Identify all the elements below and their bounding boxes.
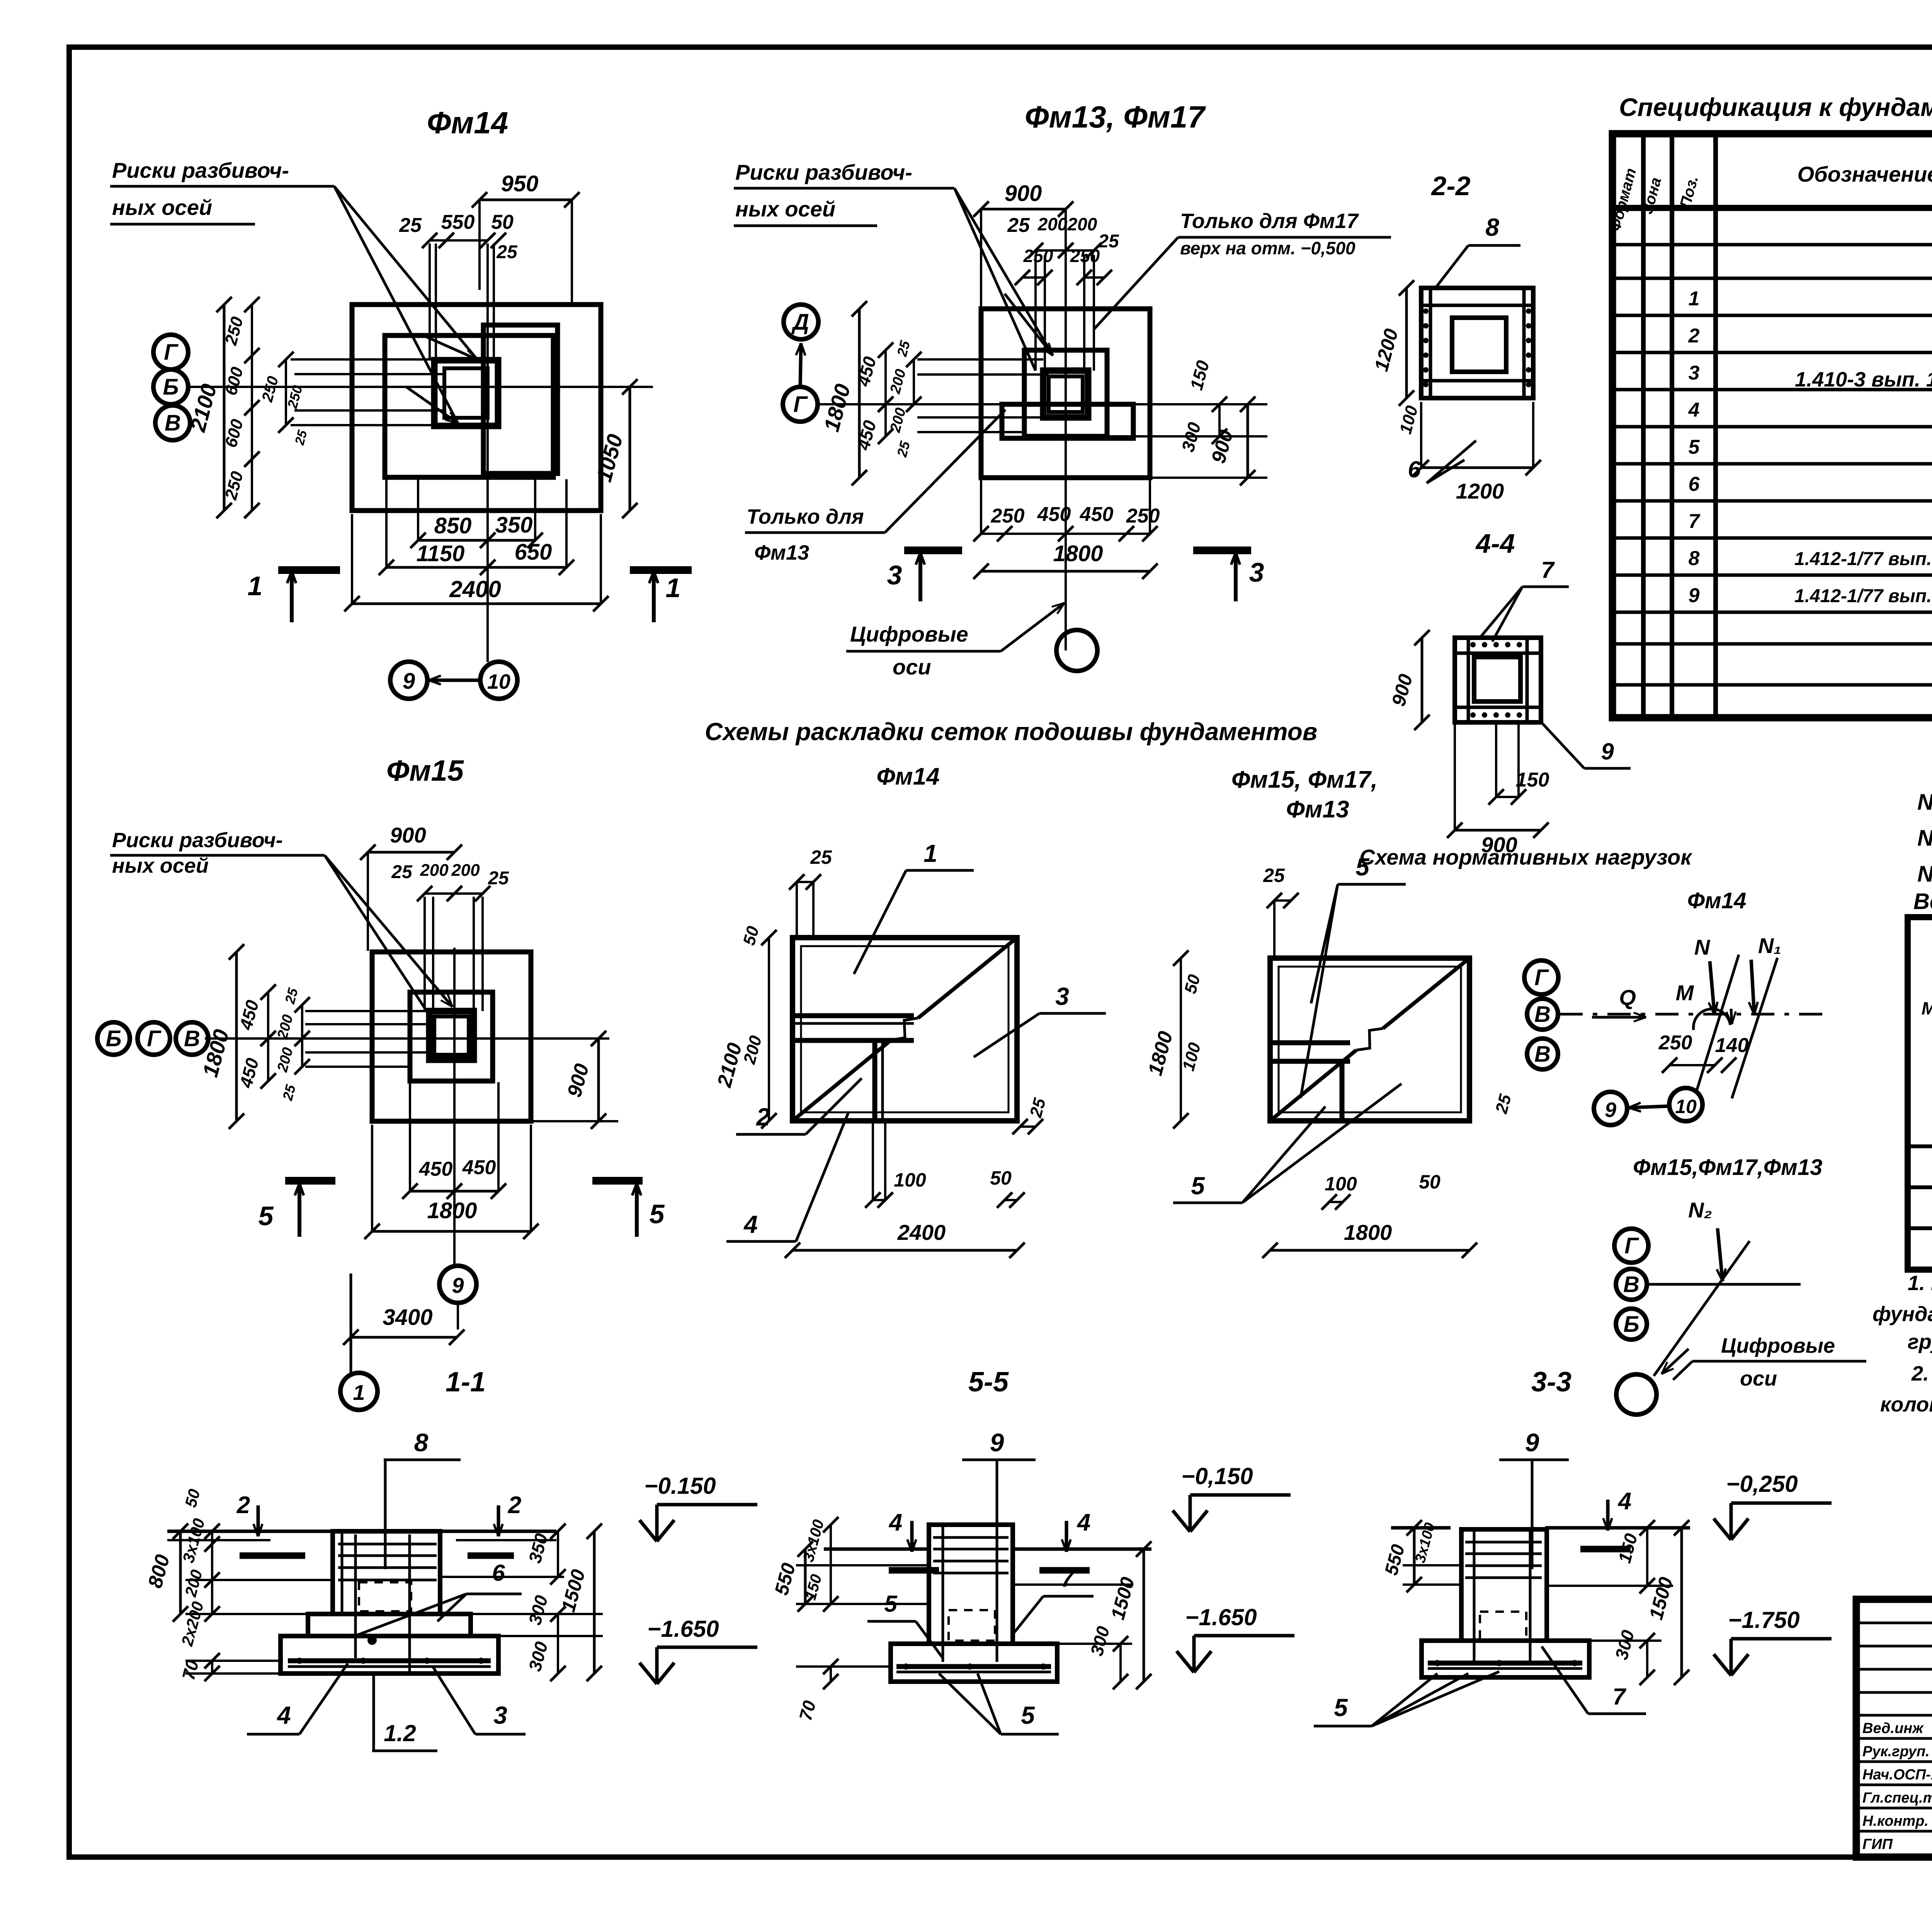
- svg-text:9: 9: [1605, 1098, 1616, 1122]
- svg-text:ных осей: ных осей: [112, 195, 212, 220]
- svg-text:N₂=358,0кН: N₂=358,0кН: [1917, 861, 1932, 887]
- svg-text:7: 7: [1541, 557, 1555, 583]
- axis circle Г (Фм13): [783, 387, 818, 422]
- section mark 1 left (Фм14): [278, 566, 340, 574]
- Фм13-only bottom extension rect: [1002, 404, 1133, 438]
- mesh Фм15 inner vertical bar: [1340, 1061, 1345, 1121]
- svg-text:1. Нагрузки на фундаменты: 1. Нагрузки на фундаменты даны по верхне…: [1908, 1272, 1932, 1295]
- svg-text:Только для Фм17: Только для Фм17: [1180, 209, 1359, 233]
- svg-text:200: 200: [451, 861, 480, 880]
- dim 1800 bottom (Фм13): [981, 570, 1150, 573]
- svg-text:Г: Г: [1534, 965, 1549, 990]
- svg-text:Спецификация к фундаментам: Спецификация к фундаментам Фм13– Фм17.: [1619, 93, 1932, 121]
- svg-text:9: 9: [403, 669, 415, 694]
- dim 1800 bottom line (mesh Фм15): [1270, 1249, 1469, 1252]
- svg-text:8: 8: [414, 1428, 429, 1457]
- svg-text:25: 25: [496, 242, 518, 262]
- svg-text:25: 25: [399, 214, 422, 237]
- svg-text:Д: Д: [791, 310, 809, 335]
- svg-text:4: 4: [888, 1509, 902, 1536]
- svg-text:250: 250: [1126, 505, 1160, 527]
- diagonal axis line (schema 2): [1654, 1241, 1750, 1376]
- axis circle 10 (Фм14): [480, 662, 517, 699]
- mesh Фм15 outer square: [1270, 958, 1469, 1121]
- svg-text:N₂: N₂: [1688, 1198, 1712, 1222]
- svg-text:−0,250: −0,250: [1726, 1471, 1798, 1497]
- svg-text:1800: 1800: [1053, 541, 1103, 566]
- ground line right (3-3): [1545, 1526, 1690, 1530]
- svg-text:N=282,5кН: N=282,5кН: [1917, 790, 1932, 815]
- horizontal centerline axis Г (Фм13): [818, 403, 1252, 405]
- axis circle 9 (Фм14): [390, 662, 427, 699]
- dim 900 top (Фм15): [368, 851, 454, 854]
- svg-text:грунта на его уступах.: грунта на его уступах.: [1908, 1330, 1932, 1353]
- pedestal (3-3): [1461, 1529, 1547, 1641]
- svg-text:1: 1: [923, 839, 937, 867]
- svg-text:Б: Б: [163, 375, 179, 400]
- section mark 2 right (1-1): [497, 1505, 500, 1536]
- svg-text:3-3: 3-3: [1531, 1367, 1571, 1398]
- svg-text:1: 1: [248, 571, 263, 601]
- leader lines (Фм13): [954, 188, 1053, 356]
- axis circle В (schema 2): [1616, 1269, 1647, 1300]
- dim 900 top (Фм13): [981, 208, 1066, 211]
- footing slab (3-3): [1422, 1641, 1589, 1677]
- dims 450 450 left (Фм13): [884, 350, 887, 404]
- svg-text:2-2: 2-2: [1430, 171, 1470, 201]
- footing slab (5-5): [891, 1644, 1057, 1682]
- svg-text:3: 3: [493, 1701, 507, 1729]
- svg-text:250: 250: [1658, 1032, 1692, 1054]
- svg-text:Фм15, Фм17,: Фм15, Фм17,: [1231, 766, 1378, 793]
- svg-text:3: 3: [1689, 362, 1700, 384]
- svg-text:5-5: 5-5: [968, 1367, 1009, 1398]
- svg-text:N₁: N₁: [1758, 933, 1781, 958]
- axis circle Д (Фм13): [784, 305, 818, 339]
- svg-text:10: 10: [487, 670, 510, 693]
- axis circle 9 below (Фм15): [439, 1266, 476, 1303]
- axis circle 10 (schema Фм14): [1669, 1088, 1702, 1121]
- axis circle 9 (schema Фм14): [1594, 1092, 1627, 1125]
- section 2-2 inner square: [1452, 318, 1506, 372]
- dims 550 3x100 150 left (3-3): [1413, 1528, 1416, 1585]
- svg-text:Рук.груп.: Рук.груп.: [1862, 1743, 1930, 1760]
- svg-text:10: 10: [1675, 1096, 1697, 1117]
- column section square (Фм14): [434, 360, 498, 426]
- svg-text:Вед.инж: Вед.инж: [1862, 1720, 1924, 1737]
- svg-text:1: 1: [1689, 288, 1700, 310]
- svg-text:9: 9: [1525, 1428, 1539, 1457]
- svg-text:450: 450: [1037, 503, 1071, 526]
- axis circle Б (schema 2): [1616, 1309, 1647, 1340]
- plan Фм14 pedestal rect: [483, 325, 558, 473]
- svg-text:2400: 2400: [897, 1220, 946, 1245]
- dim 2400 bottom (Фм14): [352, 603, 601, 605]
- svg-text:ГИП: ГИП: [1862, 1836, 1893, 1852]
- svg-text:Фм15,Фм17,Фм13: Фм15,Фм17,Фм13: [1633, 1155, 1822, 1180]
- svg-text:3: 3: [1249, 557, 1264, 587]
- svg-text:900: 900: [390, 823, 426, 847]
- steel table outer border: [1908, 917, 1932, 1270]
- dims 1500 300 right (5-5): [1143, 1549, 1145, 1682]
- svg-text:Б: Б: [1623, 1312, 1639, 1337]
- arrow 10 to 9 (schema Фм14): [1629, 1106, 1669, 1108]
- svg-text:−1.650: −1.650: [647, 1616, 719, 1642]
- svg-text:25: 25: [391, 862, 413, 882]
- section mark 1 right (Фм14): [630, 566, 692, 574]
- svg-text:Фм15: Фм15: [386, 754, 464, 787]
- axis projection lines into plan (Фм13): [917, 358, 1043, 361]
- column axis projection lines (Фм14): [429, 243, 431, 360]
- svg-text:2400: 2400: [449, 576, 501, 602]
- svg-text:4-4: 4-4: [1475, 528, 1515, 558]
- svg-text:4: 4: [1688, 399, 1700, 421]
- dim 900 left (4-4): [1421, 638, 1423, 722]
- step (1-1): [308, 1614, 333, 1636]
- ground line left (3-3): [1391, 1526, 1451, 1530]
- plan Фм13/17 step rect: [1024, 350, 1107, 436]
- svg-text:−1.750: −1.750: [1728, 1607, 1799, 1633]
- svg-text:Риски разбивоч-: Риски разбивоч-: [735, 160, 912, 184]
- svg-text:4: 4: [1617, 1488, 1631, 1515]
- horizontal centerline (Фм15): [205, 1037, 609, 1040]
- dim 2100 left (Фм14): [223, 305, 226, 511]
- svg-text:N₁=136,7кН: N₁=136,7кН: [1917, 826, 1932, 851]
- svg-text:В: В: [1534, 1042, 1551, 1067]
- section mark 5 right (Фм15): [592, 1177, 643, 1185]
- svg-text:Фм13, Фм17: Фм13, Фм17: [1025, 100, 1206, 134]
- ground line left (5-5): [824, 1548, 929, 1551]
- svg-text:В: В: [184, 1026, 200, 1051]
- svg-text:Схемы раскладки сеток подошв: Схемы раскладки сеток подошвы фундаменто…: [705, 718, 1317, 746]
- svg-text:450: 450: [462, 1156, 496, 1179]
- svg-text:Риски разбивоч-: Риски разбивоч-: [112, 829, 283, 852]
- section mark 3 right (Фм13): [1193, 546, 1251, 554]
- svg-text:2: 2: [1688, 325, 1700, 347]
- svg-text:50: 50: [491, 211, 514, 233]
- vertical centerline (Фм15): [453, 948, 456, 1266]
- plan Фм15 step rect: [410, 992, 493, 1081]
- svg-text:9: 9: [1689, 584, 1700, 607]
- signature table row lines: [1856, 1622, 1932, 1624]
- digital axis circle (Фм13): [1056, 630, 1097, 671]
- column projection lines (Фм15): [423, 897, 426, 1011]
- pedestal vertical rebar (3-3): [1473, 1531, 1476, 1662]
- svg-text:Цифровые: Цифровые: [850, 622, 968, 646]
- svg-text:25: 25: [1098, 231, 1119, 252]
- svg-text:Фм14: Фм14: [876, 763, 939, 790]
- leader lines (Фм15): [325, 855, 452, 1007]
- axis line (schema 2): [1648, 1283, 1801, 1286]
- mesh Фм14 inner horizontal bar 2: [793, 1038, 914, 1043]
- svg-text:В: В: [165, 410, 181, 436]
- svg-text:1.2: 1.2: [384, 1720, 416, 1746]
- column inner square (Фм15): [434, 1016, 469, 1055]
- svg-text:550: 550: [441, 211, 475, 233]
- ground line right (5-5): [1013, 1548, 1151, 1551]
- svg-text:1800: 1800: [1344, 1220, 1392, 1245]
- svg-text:Фм13: Фм13: [1286, 796, 1349, 823]
- dim 250/250/25 inner left (Фм14): [285, 359, 287, 425]
- svg-text:1150: 1150: [417, 541, 465, 566]
- svg-text:2: 2: [508, 1492, 521, 1519]
- svg-text:Н.контр.: Н.контр.: [1862, 1813, 1929, 1829]
- pedestal ties (1-1): [338, 1543, 437, 1546]
- section mark 2 left (1-1): [257, 1505, 260, 1536]
- leader lines to column marks (Фм14): [334, 186, 477, 359]
- dim 1200 bottom (2-2): [1421, 466, 1533, 469]
- axis circle Б (Фм14): [153, 369, 188, 404]
- plan Фм15 outer rect 1800x1800: [372, 952, 531, 1121]
- axis circle Г (Фм14): [153, 335, 188, 369]
- section mark 4 right (5-5): [1065, 1521, 1068, 1552]
- section mark 4 left (5-5): [910, 1521, 914, 1552]
- dims 150 1500 300 right (3-3): [1646, 1528, 1648, 1586]
- svg-text:150: 150: [1516, 769, 1549, 791]
- svg-text:200: 200: [1037, 214, 1068, 234]
- svg-text:8: 8: [1689, 547, 1700, 570]
- svg-text:Фм14: Фм14: [1687, 888, 1747, 913]
- slab center dot (1-1): [367, 1636, 377, 1645]
- svg-text:5: 5: [650, 1199, 665, 1229]
- section 4-4 outer square: [1455, 638, 1541, 722]
- svg-text:Б: Б: [105, 1026, 121, 1051]
- dim 900 right (Фм15): [597, 1039, 600, 1121]
- svg-text:100: 100: [1325, 1173, 1357, 1195]
- svg-text:250: 250: [1023, 246, 1053, 266]
- vertical centerline (Фм13): [1065, 209, 1067, 650]
- section mark 3 left (Фм13): [904, 546, 962, 554]
- arrow from 10 to 9 (Фм14): [429, 679, 480, 682]
- dashed anchor box (5-5): [949, 1610, 995, 1641]
- spec table row lines: [1612, 206, 1932, 210]
- axis circle В (Фм14): [155, 405, 190, 440]
- mesh Фм14 outer square: [793, 938, 1017, 1121]
- N2 arrow (schema 2): [1718, 1228, 1723, 1281]
- dim 1800 bottom (Фм15): [372, 1230, 531, 1233]
- projection lines to dims (3-3): [1403, 1583, 1461, 1586]
- projection lines to dims (1-1): [185, 1613, 308, 1615]
- column section square (Фм13): [1043, 371, 1088, 417]
- spec table outer border: [1612, 134, 1932, 718]
- svg-text:1200: 1200: [1456, 479, 1504, 503]
- dim 1200 left (2-2): [1405, 288, 1408, 398]
- dim 1150 650 (Фм14): [386, 566, 488, 569]
- svg-text:3400: 3400: [383, 1305, 432, 1330]
- dim 2400 bottom (mesh Фм14): [793, 1249, 1017, 1252]
- pedestal (1-1): [333, 1531, 440, 1614]
- dims 150 300 900 right (Фм13): [1218, 404, 1221, 436]
- leader from 8 into pedestal (1-1): [384, 1460, 387, 1569]
- axis circle В (Фм15): [176, 1022, 208, 1055]
- ground line left (1-1): [167, 1530, 333, 1533]
- vertical centerline (Фм14): [486, 271, 489, 662]
- svg-text:Только для: Только для: [747, 505, 864, 528]
- svg-text:25: 25: [1007, 214, 1030, 237]
- axis circle В (schema Фм14): [1527, 999, 1558, 1030]
- mesh Фм14 inner vertical bar: [872, 1040, 878, 1121]
- svg-text:200: 200: [1067, 214, 1097, 234]
- mesh Фм15 inner horizontal bar 2: [1270, 1059, 1350, 1064]
- column inner square (Фм14): [444, 368, 488, 418]
- dim 250/600/600/250 left (Фм14): [251, 305, 253, 511]
- dim 850 350 (Фм14): [418, 539, 488, 542]
- svg-text:5: 5: [1334, 1694, 1348, 1721]
- dims 200 200 25 inner (Фм13): [913, 359, 915, 404]
- plan Фм14 step rect: [385, 335, 553, 477]
- column section square (Фм15): [429, 1011, 474, 1060]
- svg-text:В: В: [1623, 1272, 1639, 1297]
- svg-text:2: 2: [236, 1492, 250, 1519]
- column inner square (Фм13): [1049, 376, 1083, 412]
- pedestal vertical rebar (5-5): [942, 1527, 944, 1662]
- steel table data rows: [1908, 1144, 1932, 1148]
- dim 950 top (Фм14): [480, 199, 572, 201]
- svg-text:Риски разбивоч-: Риски разбивоч-: [112, 158, 289, 182]
- rebar dots (2-2): [1423, 308, 1429, 314]
- svg-text:2. При установке в опалубку: 2. При установке в опалубку вертикальных…: [1911, 1362, 1932, 1385]
- svg-text:350: 350: [495, 512, 533, 538]
- dims 450 450 left (Фм15): [267, 992, 269, 1039]
- svg-text:9: 9: [452, 1273, 464, 1297]
- svg-text:7: 7: [1689, 510, 1701, 533]
- svg-text:9: 9: [990, 1428, 1004, 1457]
- axis circle Г (schema 2): [1614, 1229, 1648, 1263]
- svg-text:Q: Q: [1619, 985, 1636, 1010]
- svg-text:1: 1: [666, 573, 681, 603]
- svg-text:−1.650: −1.650: [1185, 1604, 1257, 1630]
- svg-text:Гл.спец.т.о: Гл.спец.т.о: [1862, 1790, 1932, 1806]
- column projection lines (Фм13): [1034, 255, 1037, 371]
- svg-text:Нач.ОСП-1: Нач.ОСП-1: [1862, 1767, 1932, 1783]
- horizontal centerline axis Б (Фм14): [188, 386, 653, 388]
- pedestal ties (3-3): [1465, 1541, 1542, 1544]
- mesh Фм14 diagonal with break: [793, 1040, 891, 1121]
- svg-text:5: 5: [1021, 1701, 1035, 1729]
- svg-text:7: 7: [1612, 1684, 1626, 1709]
- svg-text:5: 5: [259, 1201, 274, 1231]
- svg-text:950: 950: [501, 171, 539, 196]
- section 2-2 outer square: [1421, 288, 1533, 398]
- rebar dots (4-4): [1470, 642, 1476, 647]
- section 2-2 mesh frame lines: [1429, 288, 1432, 398]
- footing bottom rebar (1-1): [288, 1658, 491, 1663]
- svg-text:850: 850: [434, 513, 472, 538]
- svg-text:4: 4: [1077, 1509, 1090, 1536]
- svg-text:M: M: [1676, 981, 1694, 1005]
- plan Фм13/17 outer rect 1800x1800: [981, 309, 1150, 478]
- svg-text:5: 5: [1191, 1172, 1205, 1200]
- title block outer border: [1856, 1599, 1932, 1857]
- svg-text:9: 9: [1601, 739, 1614, 764]
- arrow Г to Д (Фм13): [800, 343, 801, 386]
- dim 900 bottom (4-4): [1455, 829, 1541, 832]
- svg-text:Г: Г: [147, 1026, 162, 1051]
- dashed anchor box (1-1): [359, 1582, 411, 1611]
- svg-text:250: 250: [991, 505, 1025, 527]
- svg-text:5: 5: [1689, 436, 1700, 458]
- svg-text:7: 7: [1061, 1566, 1075, 1592]
- footing slab (1-1): [281, 1636, 498, 1674]
- axis circle Б (Фм15): [97, 1022, 130, 1055]
- svg-text:100: 100: [894, 1169, 926, 1191]
- svg-text:140: 140: [1715, 1034, 1749, 1057]
- axis circle 1 (Фм15): [340, 1373, 378, 1410]
- svg-text:1.410-3 вып. 1: 1.410-3 вып. 1: [1795, 368, 1932, 391]
- axis projection lines into plan (Фм15): [305, 1010, 429, 1012]
- svg-text:1-1: 1-1: [446, 1367, 486, 1398]
- dim 800 left (1-1): [179, 1531, 182, 1614]
- svg-text:650: 650: [515, 540, 552, 565]
- svg-text:1.412-1/77 вып.3: 1.412-1/77 вып.3: [1794, 549, 1932, 569]
- svg-text:Г: Г: [1624, 1233, 1639, 1258]
- svg-text:Схема нормативных нагрузок: Схема нормативных нагрузок: [1359, 845, 1692, 869]
- svg-text:оси: оси: [1740, 1367, 1777, 1390]
- svg-text:1.412-1/77 вып.3: 1.412-1/77 вып.3: [1794, 586, 1932, 606]
- axis circle В2 (schema Фм14): [1527, 1039, 1558, 1069]
- svg-text:4: 4: [276, 1701, 291, 1729]
- svg-text:3: 3: [1055, 982, 1069, 1010]
- svg-text:Цифровые: Цифровые: [1721, 1334, 1835, 1357]
- section 4-4 inner square: [1474, 657, 1520, 701]
- footing bottom rebar (5-5): [896, 1664, 1051, 1669]
- svg-text:1: 1: [353, 1380, 365, 1405]
- svg-text:Г: Г: [793, 392, 808, 417]
- dims 350 1500 300 300 right (1-1): [557, 1531, 559, 1577]
- axis circle Г (schema Фм14): [1524, 960, 1558, 994]
- svg-text:50: 50: [990, 1167, 1012, 1189]
- svg-text:1800: 1800: [427, 1198, 477, 1223]
- digital axis circle (schema 2): [1616, 1374, 1656, 1415]
- svg-text:фундаментов без учета нагру: фундаментов без учета нагрузки на пол, в…: [1872, 1302, 1932, 1326]
- diagonal axis lines (schema Фм14): [1696, 955, 1739, 1092]
- svg-text:3: 3: [887, 560, 902, 590]
- spec table column lines: [1641, 134, 1646, 718]
- svg-text:900: 900: [1005, 181, 1042, 206]
- mesh Фм14 inner horizontal bar: [793, 1013, 914, 1018]
- section mark 4 (3-3): [1606, 1500, 1610, 1531]
- pedestal vertical rebar (1-1): [354, 1534, 357, 1658]
- projection lines to dims (5-5): [796, 1603, 929, 1605]
- svg-text:6: 6: [1689, 473, 1700, 495]
- mesh Фм15 inner horizontal bar: [1270, 1040, 1350, 1045]
- mesh Фм15 diagonal with break: [1270, 1050, 1356, 1121]
- svg-text:450: 450: [1080, 503, 1114, 526]
- svg-text:N: N: [1694, 935, 1711, 959]
- svg-text:ных осей: ных осей: [735, 197, 835, 221]
- section mark 5 left (Фм15): [285, 1177, 335, 1185]
- svg-text:верх на отм. −0,500: верх на отм. −0,500: [1180, 238, 1355, 258]
- axis circle Г (Фм15): [138, 1022, 170, 1055]
- svg-text:200: 200: [420, 861, 449, 880]
- dims 50 3x100 200 2x200 left (1-1): [211, 1531, 213, 1614]
- svg-text:−0,150: −0,150: [1181, 1463, 1253, 1489]
- svg-text:−0.150: −0.150: [644, 1473, 716, 1499]
- dim 1050 right (Фм14): [629, 387, 631, 511]
- svg-text:Г: Г: [164, 340, 179, 365]
- svg-text:ных осей: ных осей: [112, 854, 209, 877]
- plan Фм14 outer footing rect 2400x2100: [352, 305, 601, 511]
- svg-text:оси: оси: [893, 655, 931, 679]
- pedestal ties (5-5): [933, 1536, 1009, 1539]
- dashed anchor box (3-3): [1480, 1612, 1526, 1641]
- svg-text:4: 4: [743, 1210, 758, 1238]
- svg-text:25: 25: [1263, 865, 1285, 886]
- svg-text:450: 450: [419, 1158, 453, 1180]
- pedestal (5-5): [929, 1525, 1013, 1644]
- svg-text:В: В: [1534, 1002, 1551, 1027]
- svg-text:Обозначение: Обозначение: [1798, 162, 1932, 186]
